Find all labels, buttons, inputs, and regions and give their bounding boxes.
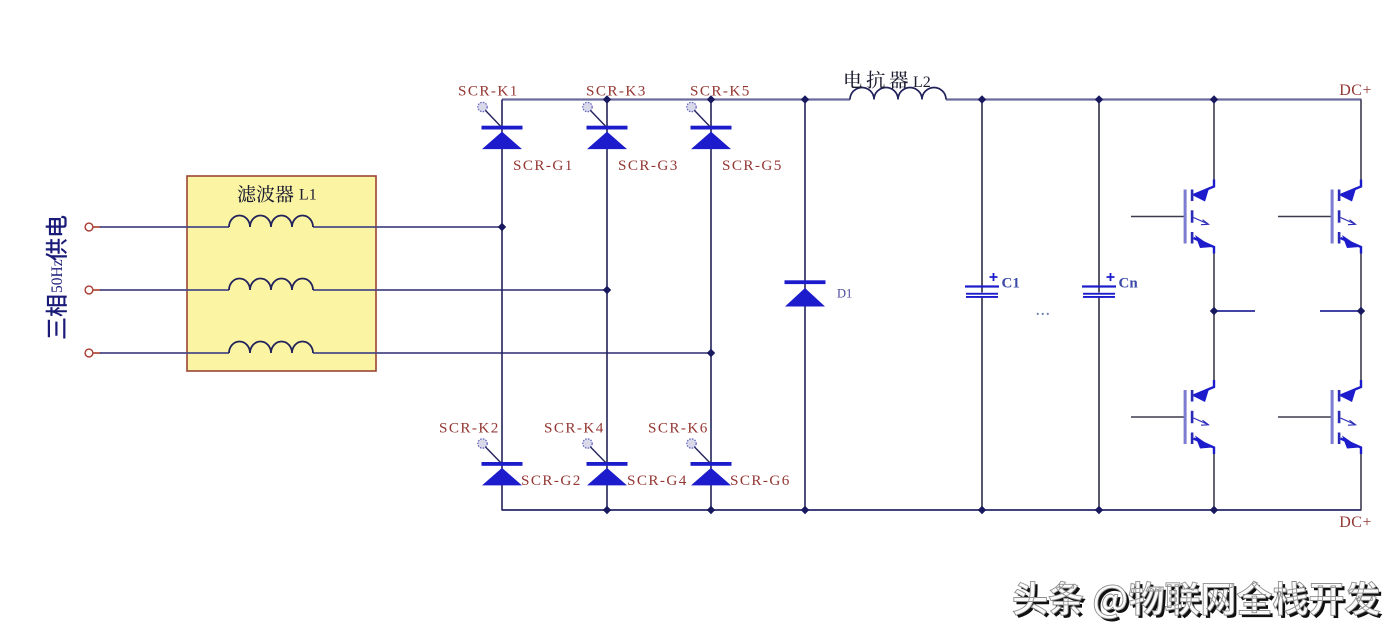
- junction phase A col1: [498, 223, 506, 231]
- junction top rail x1214: [1210, 95, 1218, 103]
- wire phase C pin stub: [94, 352, 102, 354]
- wire gate stub Q4: [1278, 416, 1332, 418]
- wire phase B left of filter: [100, 289, 229, 291]
- inductor L1c: [229, 342, 313, 354]
- wire Cn column top: [1098, 100, 1100, 293]
- label 滤波器 L1: [238, 185, 317, 204]
- IGBT Q4: [1331, 380, 1361, 454]
- label 三相50Hz供电: [46, 216, 67, 339]
- svg-text:DC+: DC+: [1339, 82, 1372, 99]
- wire column 1: [501, 100, 503, 511]
- terminal phase A: [85, 223, 93, 231]
- junction right leg mid: [1357, 307, 1365, 315]
- wire right leg upper-mid: [1360, 253, 1362, 312]
- thyristor SCR3: [583, 102, 628, 149]
- wire left leg lower: [1213, 453, 1215, 510]
- svg-text:L1: L1: [299, 187, 317, 204]
- label 电抗器L2: [845, 71, 930, 91]
- thyristor SCR2: [478, 439, 523, 486]
- svg-text:SCR-G1: SCR-G1: [513, 157, 574, 174]
- wire phase A pin stub: [94, 226, 102, 228]
- svg-text:SCR-K2: SCR-K2: [439, 420, 500, 437]
- svg-text:SCR-G3: SCR-G3: [618, 157, 679, 174]
- svg-text:Cn: Cn: [1119, 276, 1139, 292]
- svg-text:SCR-G5: SCR-G5: [722, 157, 783, 174]
- wire phase A right of filter: [313, 226, 502, 228]
- svg-text:DC+: DC+: [1339, 514, 1372, 531]
- wire bottom rail: [502, 509, 1362, 511]
- inductor L2: [850, 88, 946, 100]
- junction bottom rail x805: [801, 506, 809, 514]
- junction phase B col2: [603, 286, 611, 294]
- junction top rail x982: [978, 95, 986, 103]
- wire C1 column top: [981, 100, 983, 293]
- svg-text:SCR-K3: SCR-K3: [586, 83, 647, 100]
- wire right leg mid-lower: [1360, 311, 1362, 381]
- wire phase B pin stub: [94, 289, 102, 291]
- svg-text:SCR-K6: SCR-K6: [648, 420, 709, 437]
- junction bottom rail x1214: [1210, 506, 1218, 514]
- wire phase A left of filter: [100, 226, 229, 228]
- thyristor SCR6: [687, 439, 732, 486]
- capacitor Cn: [1082, 273, 1116, 298]
- IGBT Q2: [1184, 380, 1214, 454]
- terminal phase C: [85, 349, 93, 357]
- wire left leg mid-lower: [1213, 311, 1215, 381]
- wire column 2: [606, 100, 608, 511]
- svg-text:L2: L2: [913, 74, 931, 91]
- watermark 头条@物联网全栈开发: [1013, 581, 1382, 621]
- svg-text:D1: D1: [837, 287, 852, 301]
- inductor L1b: [229, 279, 313, 291]
- junction top rail x711: [707, 95, 715, 103]
- wire D1 column: [804, 100, 806, 511]
- wire Cn column bottom: [1098, 298, 1100, 511]
- wire phase B right of filter: [313, 289, 607, 291]
- wire gate stub Q1: [1131, 216, 1185, 218]
- wire C1 column bottom: [981, 298, 983, 511]
- terminal phase B: [85, 286, 93, 294]
- svg-text:50Hz: 50Hz: [49, 259, 66, 293]
- junction phase C col3: [707, 349, 715, 357]
- wire gate stub Q3: [1278, 216, 1332, 218]
- wire right leg lower: [1360, 453, 1362, 510]
- filter box L1: [187, 176, 376, 371]
- svg-text:...: ...: [1036, 304, 1051, 319]
- wire left leg upper: [1213, 100, 1215, 181]
- svg-text:SCR-G4: SCR-G4: [627, 472, 688, 489]
- junction bottom rail x982: [978, 506, 986, 514]
- svg-text:SCR-K5: SCR-K5: [690, 83, 751, 100]
- junction top rail x805: [801, 95, 809, 103]
- svg-text:SCR-K4: SCR-K4: [544, 420, 605, 437]
- junction bottom rail x711: [707, 506, 715, 514]
- wire left leg upper-mid: [1213, 253, 1215, 312]
- IGBT Q3: [1331, 180, 1361, 254]
- wire phase C left of filter: [100, 352, 229, 354]
- capacitor C1: [965, 273, 999, 298]
- junction top rail x607: [603, 95, 611, 103]
- thyristor SCR5: [687, 102, 732, 149]
- thyristor SCR1: [478, 102, 523, 149]
- wire right leg upper: [1360, 100, 1362, 181]
- inductor L1a: [229, 216, 313, 228]
- junction left leg mid: [1210, 307, 1218, 315]
- wire top DC+ rail left segment: [502, 98, 850, 100]
- svg-text:SCR-G6: SCR-G6: [730, 472, 791, 489]
- junction top rail x1099: [1095, 95, 1103, 103]
- wire gate stub Q2: [1131, 416, 1185, 418]
- svg-text:C1: C1: [1002, 276, 1020, 292]
- wire phase C right of filter: [313, 352, 711, 354]
- wire left phase-out stub: [1214, 310, 1255, 312]
- thyristor SCR4: [583, 439, 628, 486]
- wire top DC+ rail right segment: [946, 98, 1362, 100]
- junction bottom rail x607: [603, 506, 611, 514]
- svg-text:SCR-K1: SCR-K1: [458, 83, 519, 100]
- wire right phase-out stub: [1320, 310, 1361, 312]
- svg-text:SCR-G2: SCR-G2: [521, 472, 582, 489]
- wire column 3: [710, 100, 712, 511]
- junction bottom rail x1099: [1095, 506, 1103, 514]
- IGBT Q1: [1184, 180, 1214, 254]
- diode D1: [785, 280, 826, 306]
